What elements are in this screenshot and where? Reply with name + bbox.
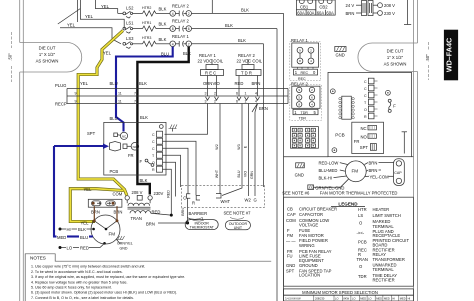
svg-text:G: G bbox=[254, 198, 257, 203]
band pin 3 + wire orn bbox=[203, 81, 212, 104]
circuit breaker CB1 bbox=[296, 0, 315, 15]
svg-text:CAP: CAP bbox=[287, 212, 296, 217]
svg-text:11: 11 bbox=[118, 92, 122, 96]
svg-text:FR: FR bbox=[128, 153, 134, 158]
indoor thermostat bubble bbox=[185, 220, 218, 230]
transformer terminals COM 208 230 bbox=[113, 190, 164, 200]
svg-text:4: 4 bbox=[172, 12, 174, 16]
heater HTR3 row3 bbox=[133, 36, 170, 46]
svg-text:R: R bbox=[192, 201, 195, 206]
svg-text:BLK: BLK bbox=[159, 37, 167, 42]
motor ground layout bbox=[308, 179, 349, 191]
svg-text:F: F bbox=[393, 104, 396, 109]
legend right column bbox=[357, 207, 410, 282]
brn wire bottom bbox=[146, 199, 189, 227]
svg-text:60A: 60A bbox=[297, 10, 305, 15]
svg-text:HTR1: HTR1 bbox=[142, 21, 151, 25]
svg-text:YEL: YEL bbox=[67, 23, 76, 28]
ground hatch top right of pcb bbox=[169, 125, 178, 132]
svg-text:RELAY 2: RELAY 2 bbox=[172, 19, 190, 24]
PCB box left schematic bbox=[104, 122, 166, 175]
svg-text:TDR: TDR bbox=[358, 274, 367, 279]
motor leads right to cap bbox=[365, 161, 394, 180]
svg-text:C: C bbox=[364, 80, 367, 84]
svg-text:LIMIT SWITCH: LIMIT SWITCH bbox=[373, 213, 401, 218]
svg-text:BLK: BLK bbox=[139, 81, 147, 86]
limit switch LS2 row1 bbox=[118, 6, 134, 19]
svg-text:11: 11 bbox=[118, 100, 122, 104]
svg-text:RECTIFIER: RECTIFIER bbox=[373, 277, 395, 282]
svg-text:BLU: BLU bbox=[161, 52, 169, 57]
svg-text:1″ X 1/2″: 1″ X 1/2″ bbox=[387, 55, 404, 60]
svg-text:RELAY 1: RELAY 1 bbox=[199, 53, 217, 58]
svg-text:F: F bbox=[140, 159, 143, 164]
svg-text:1. Use copper wire (75°C min): 1. Use copper wire (75°C min) only betwe… bbox=[31, 265, 145, 269]
relay 2 contact row1 bbox=[170, 3, 192, 16]
svg-text:LO: LO bbox=[335, 297, 338, 301]
svg-text:208 V: 208 V bbox=[384, 3, 395, 8]
wire E/VIO bbox=[244, 104, 249, 197]
svg-text:HTR3: HTR3 bbox=[142, 36, 151, 40]
wire vertical top-left bbox=[77, 0, 79, 22]
motor lead HI bbox=[59, 227, 93, 232]
pcb sub box NC NO SPT bbox=[352, 122, 384, 153]
pcb fuse F bbox=[388, 99, 396, 112]
svg-text:C: C bbox=[152, 147, 155, 151]
band pin 1 bbox=[245, 92, 249, 104]
legend left column bbox=[286, 207, 337, 278]
svg-text:SPT: SPT bbox=[360, 145, 369, 150]
ground symbol upper right bbox=[335, 47, 346, 58]
svg-text:BRN: BRN bbox=[369, 168, 378, 173]
svg-text:1: 1 bbox=[245, 92, 247, 96]
svg-text:MED: MED bbox=[360, 297, 366, 301]
svg-text:LS3: LS3 bbox=[126, 36, 134, 41]
band pin 7 bbox=[134, 92, 136, 104]
svg-text:MINIMUM MOTOR SPEED SELECTION: MINIMUM MOTOR SPEED SELECTION bbox=[302, 290, 378, 295]
svg-text:6. (3) speed motor shown. Opt: 6. (3) speed motor shown. Optional (2) s… bbox=[31, 291, 177, 295]
svg-text:O: O bbox=[152, 161, 155, 165]
svg-text:NO: NO bbox=[361, 134, 368, 139]
svg-text:BLK: BLK bbox=[225, 23, 233, 28]
die cut notch left bbox=[20, 43, 82, 73]
svg-text:8: 8 bbox=[172, 27, 174, 31]
strip wires to right bbox=[163, 141, 197, 216]
svg-text:22 VDC COIL: 22 VDC COIL bbox=[198, 59, 224, 64]
svg-text:BARRIER: BARRIER bbox=[189, 211, 208, 216]
outdoor unit bubble bbox=[225, 218, 250, 231]
svg-text:4: 4 bbox=[255, 100, 257, 104]
svg-text:VIO: VIO bbox=[244, 171, 248, 177]
svg-text:SEE NOTE #6: SEE NOTE #6 bbox=[282, 190, 310, 195]
svg-text:YEL: YEL bbox=[81, 221, 90, 226]
svg-text:BRN: BRN bbox=[114, 209, 123, 214]
svg-text:T D R: T D R bbox=[241, 71, 252, 76]
svg-text:BRN: BRN bbox=[369, 161, 378, 166]
svg-text:RED: RED bbox=[167, 190, 171, 198]
motor lead MED (blue) bbox=[53, 146, 103, 240]
svg-text:BLU: BLU bbox=[80, 235, 88, 240]
208V/230V terminals bbox=[378, 3, 396, 16]
nameplate tab WD-FA4C bbox=[444, 30, 458, 81]
svg-text:UNIT: UNIT bbox=[234, 226, 243, 230]
svg-text:C: C bbox=[183, 196, 186, 201]
IC chip bbox=[339, 96, 355, 119]
minimum motor speed selection table bbox=[284, 289, 414, 301]
svg-text:PCB: PCB bbox=[358, 240, 367, 245]
svg-text:24 V: 24 V bbox=[346, 3, 355, 8]
time delay TDR (relay2 coil) bbox=[236, 59, 261, 86]
svg-text:BLU: BLU bbox=[110, 81, 118, 86]
svg-text:GND: GND bbox=[286, 263, 295, 268]
svg-text:MED: MED bbox=[57, 235, 66, 240]
wire row2 to right bbox=[192, 23, 278, 29]
svg-text:BLU: BLU bbox=[237, 170, 241, 177]
svg-text:W3: W3 bbox=[237, 144, 241, 149]
svg-text:RELAY 2: RELAY 2 bbox=[291, 81, 309, 86]
svg-text:2. To be wired in accordance: 2. To be wired in accordance with N.E.C.… bbox=[31, 270, 123, 274]
relay 1 layout bbox=[291, 38, 319, 67]
long vertical section lines bbox=[264, 13, 284, 301]
svg-text:GRN: GRN bbox=[250, 171, 254, 179]
motor lead LO bbox=[59, 243, 105, 250]
svg-text:W2: W2 bbox=[245, 198, 252, 203]
relay 1 coil label bbox=[198, 53, 224, 64]
svg-text:BRN: BRN bbox=[181, 208, 185, 216]
wire feed row2 bbox=[80, 0, 124, 29]
svg-text:230V: 230V bbox=[154, 191, 164, 196]
svg-text:HI: HI bbox=[408, 297, 411, 301]
svg-text:FM: FM bbox=[352, 169, 359, 174]
capacitor CAP layout bbox=[394, 159, 405, 186]
svg-text:60A: 60A bbox=[317, 10, 325, 15]
fan motor FM layout bbox=[345, 161, 366, 182]
PCB layout box bbox=[328, 72, 412, 156]
band pin 4 + wire brn bbox=[252, 81, 261, 104]
svg-text:BLK-HI: BLK-HI bbox=[319, 176, 333, 181]
wire feed row3 bbox=[60, 23, 121, 44]
svg-text:R: R bbox=[152, 168, 155, 172]
svg-text:BLK: BLK bbox=[140, 115, 148, 120]
pcb terminal column bbox=[364, 78, 378, 119]
svg-text:CB1: CB1 bbox=[300, 5, 309, 10]
svg-text:FM: FM bbox=[109, 231, 116, 236]
svg-text:BLK: BLK bbox=[159, 6, 167, 11]
svg-text:.50″: .50″ bbox=[425, 54, 430, 62]
svg-text:RELAY 2: RELAY 2 bbox=[172, 3, 190, 8]
svg-text:PCB: PCB bbox=[110, 169, 119, 174]
transformer TRAN bbox=[127, 200, 171, 221]
wire yellow main bbox=[70, 31, 127, 226]
svg-text:BRN: BRN bbox=[91, 209, 100, 214]
svg-text:LS1: LS1 bbox=[126, 21, 134, 26]
svg-text:NC: NC bbox=[361, 126, 367, 131]
svg-text:LO: LO bbox=[352, 297, 355, 301]
svg-text:1″ X 1/2″: 1″ X 1/2″ bbox=[39, 52, 56, 57]
svg-text:C: C bbox=[364, 94, 367, 98]
svg-text:BLK: BLK bbox=[238, 38, 246, 43]
svg-text:COM: COM bbox=[113, 192, 123, 197]
svg-text:PCB: PCB bbox=[335, 133, 344, 138]
svg-text:SPT: SPT bbox=[286, 268, 295, 273]
svg-text:4: 4 bbox=[255, 92, 257, 96]
border frame left (double vertical lines) bbox=[20, 0, 24, 301]
svg-text:BLK: BLK bbox=[183, 51, 191, 56]
rectifier REC (relay1 coil) bbox=[201, 59, 224, 86]
wire row1 to right bbox=[192, 8, 284, 14]
svg-text:PLUG: PLUG bbox=[55, 83, 66, 88]
svg-text:YEL: YEL bbox=[103, 51, 112, 56]
svg-text:C: C bbox=[152, 140, 155, 144]
SPT arrow into pcb bbox=[87, 131, 131, 151]
svg-text:2: 2 bbox=[214, 100, 216, 104]
wire W3/BLU bbox=[222, 104, 242, 196]
svg-text:RECP: RECP bbox=[55, 102, 67, 107]
svg-text:RELAY 2: RELAY 2 bbox=[238, 53, 256, 58]
terminal strip C C C T O R bbox=[152, 131, 163, 172]
svg-text:-><-: -><- bbox=[357, 231, 365, 236]
dimension .50" left bbox=[8, 32, 13, 82]
limit switch LS1 row2 bbox=[123, 21, 134, 34]
svg-text:WHT: WHT bbox=[215, 169, 219, 178]
wire blue main bbox=[110, 47, 173, 132]
svg-text:YEL-COM: YEL-COM bbox=[370, 174, 390, 179]
pcb screw 2 bbox=[332, 148, 337, 153]
merge bracket + BRN label under band bbox=[252, 104, 268, 113]
wire black thick bbox=[137, 47, 191, 195]
svg-text:3: 3 bbox=[205, 92, 207, 96]
thermostat terminal C bbox=[183, 194, 190, 201]
svg-text:WHT: WHT bbox=[221, 199, 231, 204]
brn wires cap to motor bbox=[91, 206, 122, 220]
svg-text:REC: REC bbox=[301, 71, 309, 75]
die cut notch right bbox=[358, 43, 418, 72]
band pin 9 bbox=[75, 92, 77, 104]
svg-text:LS: LS bbox=[358, 213, 363, 218]
relay 2 layout bbox=[291, 81, 320, 108]
svg-text:BLK: BLK bbox=[140, 178, 148, 183]
svg-text:8KW: 8KW bbox=[343, 297, 349, 301]
svg-text:7: 7 bbox=[134, 100, 136, 104]
svg-text:R E C: R E C bbox=[205, 71, 216, 76]
svg-text:208/230: 208/230 bbox=[315, 297, 325, 301]
svg-text:3. If any of the original wir: 3. If any of the original wire, as suppl… bbox=[31, 275, 185, 279]
svg-text:AS SHOWN: AS SHOWN bbox=[36, 59, 59, 64]
svg-text:6: 6 bbox=[236, 92, 238, 96]
svg-text:MED: MED bbox=[400, 297, 406, 301]
svg-text:CAPACITOR: CAPACITOR bbox=[299, 212, 323, 217]
heater HTR1 row2 bbox=[133, 21, 170, 31]
svg-text:BLK: BLK bbox=[78, 227, 86, 232]
junction dot red bbox=[170, 214, 173, 217]
band pin 2 + wire vio bbox=[213, 81, 221, 104]
barrier label bbox=[187, 211, 207, 221]
svg-text:RELAY 1: RELAY 1 bbox=[172, 34, 190, 39]
motor ground grn/yel bbox=[116, 236, 133, 250]
fan motor FM schematic bbox=[91, 215, 120, 245]
svg-text:GND: GND bbox=[120, 246, 128, 250]
svg-text:CIRCUIT BREAKER: CIRCUIT BREAKER bbox=[299, 207, 337, 212]
svg-text:GRN/YEL: GRN/YEL bbox=[117, 242, 133, 246]
svg-text:HI: HI bbox=[392, 297, 395, 301]
svg-text:BRN: BRN bbox=[146, 221, 155, 226]
svg-text:CAP: CAP bbox=[394, 171, 402, 175]
svg-text:COM: COM bbox=[286, 218, 296, 223]
svg-text:FR: FR bbox=[354, 139, 360, 144]
svg-text:BRN: BRN bbox=[346, 11, 355, 16]
svg-text:2: 2 bbox=[214, 92, 216, 96]
wire corner diagonal top-left bbox=[58, 9, 81, 25]
svg-text:NO: NO bbox=[133, 145, 138, 149]
plug/receptacle band bbox=[55, 83, 288, 107]
svg-text:6: 6 bbox=[188, 27, 190, 31]
wire GRN bbox=[250, 104, 257, 197]
svg-text:4. Replace low voltage fuse w: 4. Replace low voltage fuse with no grea… bbox=[31, 280, 128, 284]
svg-text:BLK: BLK bbox=[241, 8, 249, 13]
svg-text:208 V: 208 V bbox=[132, 190, 143, 195]
relay 2 contact row2 bbox=[170, 19, 192, 32]
svg-text:230 V: 230 V bbox=[384, 11, 395, 16]
svg-text:YEL: YEL bbox=[84, 187, 93, 192]
thermostat terminal WHT bbox=[216, 194, 230, 205]
svg-text:3: 3 bbox=[205, 100, 207, 104]
relay 2 coil label bbox=[237, 53, 263, 64]
svg-text:2: 2 bbox=[188, 42, 190, 46]
antenna ground mark bbox=[402, 132, 407, 154]
svg-text:THERMOSTAT: THERMOSTAT bbox=[190, 226, 215, 230]
svg-text:C: C bbox=[152, 133, 155, 137]
svg-text:TDR: TDR bbox=[301, 111, 309, 115]
svg-text:BRN: BRN bbox=[252, 81, 261, 86]
wire orn drop to strip bbox=[165, 104, 208, 135]
svg-text:RELAY 1: RELAY 1 bbox=[291, 38, 309, 43]
svg-text:HEATER: HEATER bbox=[373, 207, 390, 212]
24V transformer layout bbox=[346, 1, 378, 17]
svg-text:CB2: CB2 bbox=[319, 5, 328, 10]
svg-text:5. Use 60 amp class K fuses o: 5. Use 60 amp class K fuses only, for re… bbox=[31, 286, 112, 290]
notes text bbox=[31, 265, 185, 300]
svg-text:WIRING: WIRING bbox=[299, 243, 315, 248]
svg-text:7. Connect B to B, O to O, et: 7. Connect B to B, O to O, etc., see a l… bbox=[31, 296, 134, 300]
svg-text:BLU: BLU bbox=[110, 116, 118, 121]
svg-text:NOTES: NOTES bbox=[30, 256, 46, 261]
svg-text:VOLTAGE: VOLTAGE bbox=[299, 223, 318, 228]
svg-text:6: 6 bbox=[236, 100, 238, 104]
svg-text:60A: 60A bbox=[326, 10, 334, 15]
dashed field wiring box bbox=[182, 185, 265, 207]
svg-text:4: 4 bbox=[172, 42, 174, 46]
svg-text:— —: — — bbox=[286, 239, 296, 244]
svg-text:C: C bbox=[364, 87, 367, 91]
svg-text:AS SHOWN: AS SHOWN bbox=[384, 62, 407, 67]
svg-text:HTR: HTR bbox=[358, 207, 367, 212]
svg-text:HTR2: HTR2 bbox=[142, 6, 151, 10]
limit switch LS3 row3 bbox=[123, 36, 134, 48]
svg-text:LEGEND: LEGEND bbox=[338, 201, 358, 206]
svg-text:WD–FA4C: WD–FA4C bbox=[445, 38, 454, 72]
band pin 6 + wire red bbox=[235, 81, 244, 104]
band pin 11 bbox=[116, 92, 122, 104]
svg-text:LS2: LS2 bbox=[126, 6, 134, 11]
svg-text:CB: CB bbox=[287, 207, 293, 212]
thermostat terminal R bbox=[192, 196, 200, 206]
svg-text:GND: GND bbox=[295, 173, 304, 178]
screw terminal on pcb bbox=[159, 125, 163, 129]
relay contact NC in pcb bbox=[114, 132, 128, 139]
heater HTR2 row1 bbox=[133, 6, 170, 16]
outdoor terminals W2 G bbox=[245, 198, 257, 203]
svg-text:DIE CUT: DIE CUT bbox=[387, 49, 404, 54]
svg-text:SEE NOTE #7: SEE NOTE #7 bbox=[224, 211, 252, 216]
svg-text:MED: MED bbox=[384, 297, 390, 301]
section divider line above FM row bbox=[284, 156, 329, 158]
svg-text:YEL: YEL bbox=[85, 14, 94, 19]
svg-text:HI: HI bbox=[67, 227, 71, 232]
svg-text:YEL: YEL bbox=[80, 81, 89, 86]
NOTES tab bbox=[25, 254, 271, 301]
svg-text:7: 7 bbox=[134, 92, 136, 96]
svg-text:DIE CUT: DIE CUT bbox=[39, 46, 56, 51]
circuit breaker CB2 bbox=[316, 0, 335, 15]
svg-text:TERMINAL: TERMINAL bbox=[373, 267, 395, 272]
svg-text:GND: GND bbox=[336, 53, 345, 58]
dimension .50" right bbox=[425, 42, 430, 80]
svg-text:.50″: .50″ bbox=[8, 53, 13, 61]
border frame right (double vertical lines) bbox=[413, 0, 417, 301]
capacitor terminals box bbox=[88, 199, 122, 207]
svg-text:3,4,5 KW KW: 3,4,5 KW KW bbox=[285, 297, 301, 301]
wire stub top right bbox=[404, 0, 411, 25]
vertical feed top middle bbox=[211, 0, 213, 13]
svg-text:FAN MOTOR THERMALLY PROTECTED: FAN MOTOR THERMALLY PROTECTED bbox=[320, 190, 398, 195]
svg-text:2: 2 bbox=[188, 12, 190, 16]
svg-text:FM: FM bbox=[287, 233, 294, 238]
terminal grid block bbox=[291, 127, 319, 149]
pcb screw 1 bbox=[330, 89, 335, 94]
wire row3 to right bbox=[192, 38, 264, 44]
svg-text:9: 9 bbox=[75, 92, 77, 96]
svg-text:22 VDC COIL: 22 VDC COIL bbox=[237, 59, 263, 64]
svg-text:W2: W2 bbox=[215, 144, 219, 149]
svg-text:BLU-MED: BLU-MED bbox=[319, 168, 338, 173]
svg-text:TRANSFORMER: TRANSFORMER bbox=[373, 257, 405, 262]
svg-text:SPT: SPT bbox=[87, 131, 96, 136]
ground symbol lower left of layout bbox=[295, 163, 305, 178]
svg-text:RED-LOW: RED-LOW bbox=[319, 161, 339, 166]
rectifier REC layout bbox=[290, 42, 321, 81]
svg-text:60A: 60A bbox=[307, 10, 315, 15]
motor leads left bbox=[319, 161, 348, 181]
time delay TDR layout bbox=[290, 85, 322, 121]
svg-text:TRAN: TRAN bbox=[131, 216, 142, 221]
svg-text:O: O bbox=[364, 108, 367, 112]
svg-text:LO: LO bbox=[67, 246, 73, 251]
svg-text:TDR: TDR bbox=[299, 117, 307, 121]
svg-text:FU: FU bbox=[287, 254, 293, 259]
svg-text:LO: LO bbox=[368, 297, 371, 301]
svg-text:TRAN: TRAN bbox=[357, 257, 368, 262]
svg-text:LOCATION: LOCATION bbox=[299, 273, 320, 278]
fuse F in pcb bbox=[140, 159, 154, 166]
pcb screw 3 bbox=[386, 90, 391, 95]
svg-text:YEL: YEL bbox=[101, 4, 110, 9]
svg-text:R: R bbox=[364, 115, 367, 119]
svg-text:RED: RED bbox=[80, 246, 89, 251]
wire W2/WHT bbox=[215, 104, 220, 195]
legend box bbox=[284, 197, 414, 286]
svg-text:GROUND: GROUND bbox=[299, 263, 318, 268]
svg-text:MED: MED bbox=[376, 297, 382, 301]
